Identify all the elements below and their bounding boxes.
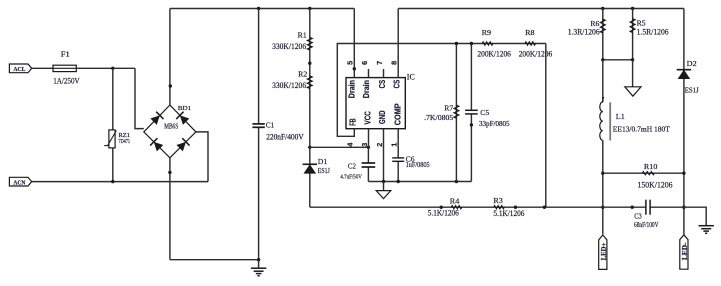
resistor R8	[525, 42, 536, 45]
svg-text:D1: D1	[318, 157, 328, 166]
varistor RZ1 wire top	[112, 68, 114, 130]
junction pin3 VCC	[367, 146, 370, 149]
pin 2 wire GND	[383, 129, 385, 182]
svg-text:7D471: 7D471	[119, 139, 131, 145]
svg-text:150K/1206: 150K/1206	[638, 180, 673, 189]
wire FB loop	[337, 44, 546, 137]
LED- output port	[680, 235, 688, 269]
bridge diode top-right	[176, 112, 190, 126]
svg-text:220nF/400V: 220nF/400V	[266, 133, 304, 142]
wire L1 down	[602, 140, 604, 234]
bridge diode bottom-left	[150, 138, 164, 152]
resistor R9	[482, 42, 493, 45]
junction RZ1-ACN	[111, 180, 114, 183]
svg-text:R3: R3	[493, 196, 503, 205]
svg-text:EE13/0.7mH 180T: EE13/0.7mH 180T	[613, 124, 670, 133]
diode D2	[677, 70, 691, 79]
svg-text:VCC: VCC	[364, 111, 373, 125]
wire D1 branch	[309, 147, 311, 207]
wire bridge top to rail	[169, 9, 171, 106]
svg-text:1: 1	[390, 143, 399, 147]
resistor R10	[603, 172, 684, 174]
dot on bridge top wire	[169, 84, 172, 87]
svg-text:1A/250V: 1A/250V	[53, 76, 80, 85]
wire VCC to pin3	[310, 146, 369, 148]
dot on C5 wire	[470, 123, 473, 126]
svg-text:FB: FB	[348, 118, 357, 126]
svg-text:6: 6	[360, 61, 369, 65]
fuse F1	[53, 65, 76, 71]
pin 6 stub	[368, 69, 370, 78]
svg-text:ACN: ACN	[13, 179, 25, 186]
capacitor C2	[367, 147, 369, 181]
wire bottom ground rail	[170, 259, 259, 261]
resistor R7	[455, 44, 457, 182]
ACL input port	[9, 64, 31, 73]
wire bridge bottom down	[169, 158, 171, 260]
junction after F1	[111, 67, 114, 70]
svg-text:1.5R/1206: 1.5R/1206	[637, 27, 669, 36]
wire R8 drop	[545, 44, 547, 208]
junction after R3	[514, 206, 517, 209]
junction D2 bottom	[682, 206, 685, 209]
junction gnd R7	[455, 180, 458, 183]
svg-text:MB6S: MB6S	[164, 124, 178, 131]
junction before C3	[631, 206, 634, 209]
svg-text:4.7uF/50V: 4.7uF/50V	[340, 174, 362, 181]
ground triangle IC	[383, 182, 385, 191]
LED+ output port	[599, 235, 607, 269]
junction R6 top	[601, 7, 604, 10]
svg-text:200K/1206: 200K/1206	[477, 49, 511, 58]
svg-text:68nF/100V: 68nF/100V	[634, 222, 659, 229]
inductor L1	[600, 97, 604, 140]
junction R6 bottom	[601, 58, 604, 61]
wire CS rail	[398, 8, 684, 10]
ACN input port	[9, 177, 31, 186]
ground triangle sense	[632, 60, 634, 87]
svg-text:330K/1206: 330K/1206	[272, 81, 306, 90]
wire R6 to L1	[602, 60, 604, 102]
resistor R3	[494, 206, 505, 209]
svg-text:GND: GND	[378, 110, 387, 124]
capacitor C6	[396, 158, 400, 161]
svg-text:R8: R8	[525, 28, 535, 37]
wire D2 branch	[683, 9, 685, 235]
wire F1 to junction	[76, 67, 135, 69]
junction R8 drop	[543, 206, 546, 209]
svg-text:CS: CS	[393, 80, 402, 89]
junction R1 top	[308, 7, 311, 10]
resistor R5	[632, 9, 634, 60]
svg-text:BD1: BD1	[178, 105, 191, 112]
wire down to bridge left	[135, 68, 144, 128]
svg-text:ACL: ACL	[13, 66, 26, 73]
svg-text:C5: C5	[480, 108, 489, 117]
junction R1-R2	[308, 62, 311, 65]
svg-text:R7: R7	[444, 103, 453, 112]
inductor L1 core bar	[609, 102, 611, 140]
junction LED+ node	[601, 206, 604, 209]
svg-text:CS: CS	[378, 80, 387, 89]
wire R6R5 bottom tie	[603, 59, 633, 61]
pin 3 stub	[368, 129, 370, 148]
svg-text:L1: L1	[616, 112, 625, 121]
svg-text:8: 8	[390, 61, 399, 65]
svg-text:R4: R4	[450, 196, 460, 205]
op-amp IC box	[346, 78, 405, 129]
svg-text:R1: R1	[298, 31, 307, 40]
svg-text:5: 5	[346, 61, 355, 65]
svg-text:Drain: Drain	[362, 80, 371, 98]
dot pin5	[353, 67, 356, 70]
svg-text:COMP: COMP	[393, 103, 402, 125]
svg-text:Drain: Drain	[348, 80, 357, 98]
capacitor C5	[470, 44, 472, 182]
svg-text:R2: R2	[298, 69, 307, 78]
wire pin8 CS up	[397, 9, 399, 78]
svg-text:LED-: LED-	[682, 242, 689, 260]
resistor R4	[451, 206, 462, 209]
pin 7 stub	[383, 69, 385, 78]
pin 1 wire COMP	[397, 129, 399, 182]
wire C1 branch	[258, 9, 260, 260]
bridge BD1 diamond	[144, 105, 196, 158]
junction D2 R10	[682, 172, 685, 175]
ground right	[684, 207, 706, 225]
resistor R2	[307, 76, 312, 89]
varistor RZ1	[109, 130, 115, 148]
junction L1 R10	[601, 172, 604, 175]
junction before R4	[440, 206, 443, 209]
diode D1	[303, 164, 317, 173]
junction R5 bottom	[631, 58, 634, 61]
junction R7 top	[455, 42, 458, 45]
svg-text:D2: D2	[687, 59, 697, 68]
wire ACN up to bridge right	[196, 132, 208, 182]
svg-text:5.1K/1206: 5.1K/1206	[493, 209, 524, 218]
wire ACL to F1	[32, 67, 53, 69]
junction gnd C6	[397, 180, 400, 183]
dot on bridge bottom wire	[168, 171, 171, 174]
svg-text:.7K/0805: .7K/0805	[424, 113, 454, 122]
varistor RZ1 wire bottom	[112, 148, 114, 182]
svg-text:3: 3	[360, 143, 369, 147]
junction C5 top	[470, 42, 473, 45]
svg-text:C2: C2	[348, 161, 356, 170]
bridge diode bottom-right	[176, 138, 190, 152]
junction VCC tap	[308, 146, 311, 149]
svg-text:5.1K/1206: 5.1K/1206	[428, 209, 459, 218]
wire bottom line	[310, 206, 684, 208]
svg-text:F1: F1	[61, 50, 70, 59]
resistor R1	[307, 37, 312, 50]
wire top rail DC+	[170, 8, 354, 10]
ground symbol left	[258, 260, 260, 269]
svg-text:ES1J: ES1J	[685, 86, 699, 95]
junction at ground left	[257, 258, 260, 261]
resistor R6	[602, 9, 604, 60]
wire analog ground line	[368, 181, 471, 183]
svg-text:200K/1206: 200K/1206	[519, 49, 553, 58]
svg-text:33pF/0805: 33pF/0805	[479, 119, 510, 128]
svg-text:R9: R9	[482, 28, 492, 37]
svg-text:C3: C3	[634, 212, 642, 221]
junction C1 top	[257, 7, 260, 10]
bridge diode top-left	[150, 112, 164, 126]
svg-text:1uF/0805: 1uF/0805	[406, 162, 431, 169]
wire R1R2 branch	[309, 9, 311, 148]
svg-text:330K/1206: 330K/1206	[272, 42, 306, 51]
svg-text:IC: IC	[407, 73, 415, 82]
wire ACN line	[32, 181, 208, 183]
svg-text:2: 2	[375, 143, 384, 147]
capacitor C3	[646, 205, 650, 209]
capacitor C1	[257, 124, 261, 127]
svg-text:LED+: LED+	[601, 243, 608, 261]
svg-text:C1: C1	[266, 120, 275, 129]
wire pin5 drain to rail	[353, 9, 355, 78]
svg-text:ES1J: ES1J	[318, 166, 330, 175]
junction gnd pin2	[382, 180, 385, 183]
svg-text:1.3R/1206: 1.3R/1206	[568, 27, 600, 36]
junction R5 top	[631, 7, 634, 10]
svg-text:7: 7	[375, 61, 384, 65]
svg-text:R10: R10	[644, 162, 658, 171]
